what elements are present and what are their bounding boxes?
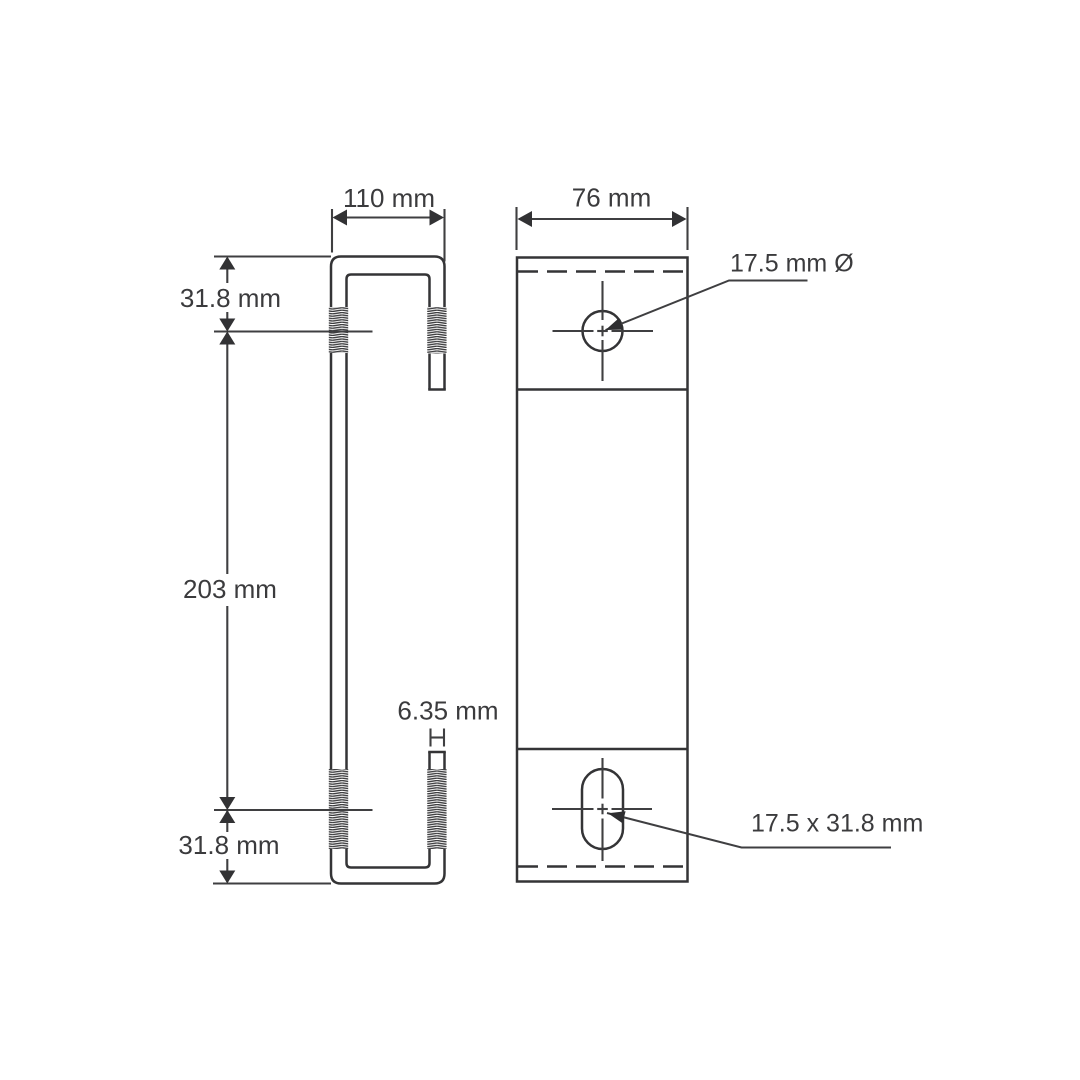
svg-text:31.8 mm: 31.8 mm	[178, 830, 279, 860]
svg-text:203 mm: 203 mm	[183, 574, 277, 604]
svg-text:6.35 mm: 6.35 mm	[397, 696, 498, 726]
svg-text:17.5 mm Ø: 17.5 mm Ø	[730, 250, 854, 278]
svg-text:17.5 x 31.8 mm: 17.5 x 31.8 mm	[751, 810, 923, 838]
svg-text:110 mm: 110 mm	[343, 183, 435, 213]
svg-text:76 mm: 76 mm	[572, 183, 651, 213]
svg-text:31.8 mm: 31.8 mm	[180, 283, 281, 313]
